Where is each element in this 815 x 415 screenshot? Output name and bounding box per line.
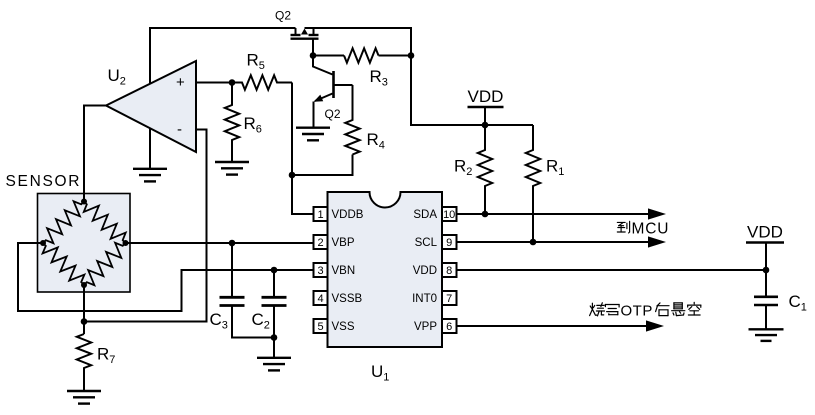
IC U1 body with notch xyxy=(328,192,443,347)
svg-text:10: 10 xyxy=(443,209,455,221)
ground under C2 xyxy=(257,357,291,359)
svg-text:VSSB: VSSB xyxy=(332,293,363,305)
U1 pin 4 box xyxy=(314,291,328,305)
resistor R1 xyxy=(526,125,540,242)
svg-text:VDD: VDD xyxy=(468,87,504,106)
junction R4/pin1 branch xyxy=(289,172,296,179)
resistor R2 xyxy=(478,125,492,214)
wire MOSFET gate drop xyxy=(312,39,314,56)
capacitor C1 xyxy=(754,270,778,329)
svg-text:+: + xyxy=(176,74,185,91)
VDD symbol (top) xyxy=(468,87,504,125)
C2/C3 bottom junction xyxy=(271,334,278,341)
U1 pin 1 box xyxy=(314,207,328,221)
svg-text:INT0: INT0 xyxy=(412,293,437,305)
junction bottom node / feedback xyxy=(81,318,88,325)
svg-text:4: 4 xyxy=(317,293,323,305)
capacitor C2 xyxy=(262,270,287,358)
sensor bridge resistor top-left xyxy=(43,201,84,243)
C3 top junction xyxy=(229,240,236,247)
svg-text:7: 7 xyxy=(446,293,452,305)
OTP floating note label xyxy=(590,302,701,319)
svg-text:VSS: VSS xyxy=(332,321,355,333)
arrow to MCU on SDA xyxy=(648,208,666,219)
U1 pin 6 box xyxy=(442,319,457,333)
wire sensor left node loop to pin3 VBN xyxy=(18,243,314,311)
wire sensor bottom node down to R7 xyxy=(83,285,85,334)
svg-text:SCL: SCL xyxy=(415,237,438,249)
svg-text:2: 2 xyxy=(317,237,323,249)
U1 pin 10 box xyxy=(442,207,457,221)
svg-text:SDA: SDA xyxy=(413,209,437,221)
sensor bridge node right xyxy=(123,240,129,246)
U1 pin 5 box xyxy=(314,319,328,333)
svg-text:9: 9 xyxy=(446,237,452,249)
U1 pin 7 box xyxy=(442,291,457,305)
U1 pin 8 box xyxy=(442,263,457,277)
svg-text:VBP: VBP xyxy=(332,237,355,249)
wire R3 right to VDD branch xyxy=(379,55,412,57)
resistor R4 xyxy=(345,85,359,155)
ground under Q2 emitter xyxy=(296,126,330,128)
ground under C1 xyxy=(749,328,784,330)
transistor Q2 (BJT) xyxy=(313,56,353,128)
U1 pin 2 box xyxy=(314,235,328,249)
resistor R5 xyxy=(232,75,292,89)
sensor bridge node left xyxy=(40,240,46,246)
wire SCL pin9 to MCU xyxy=(457,241,650,243)
svg-text:Q2: Q2 xyxy=(275,9,291,23)
U1 pin 3 box xyxy=(314,263,328,277)
R2 bottom junction xyxy=(482,211,489,218)
VDD branch junction xyxy=(482,122,489,129)
sensor bridge node bottom xyxy=(81,282,87,288)
VDD symbol (right) xyxy=(746,223,784,271)
svg-text:VDDB: VDDB xyxy=(332,209,364,221)
wire SDA pin10 to MCU xyxy=(457,213,650,215)
svg-text:6: 6 xyxy=(446,321,452,333)
svg-text:VDD: VDD xyxy=(413,265,437,277)
svg-text:VPP: VPP xyxy=(414,321,437,333)
wire op-amp output to sensor top node xyxy=(84,106,106,202)
resistor R3 xyxy=(344,48,379,62)
svg-text:8: 8 xyxy=(446,265,452,277)
sensor body box xyxy=(38,194,131,293)
resistor R7 xyxy=(77,334,91,391)
wire op-amp + input to node A xyxy=(196,82,232,84)
wire R4 bottom to node at pin1 branch xyxy=(292,155,353,176)
C2 top junction xyxy=(271,267,278,274)
svg-text:MCU: MCU xyxy=(632,221,670,238)
op-amp ground wire xyxy=(149,128,151,169)
sensor bridge resistor top-right xyxy=(84,202,126,244)
MOSFET Q2 (top) xyxy=(291,28,319,39)
wire R5 right side down to pin1 VDDB xyxy=(292,83,314,215)
resistor R6 xyxy=(225,83,239,162)
capacitor C3 xyxy=(220,243,275,338)
wire top rail right segment to VDD branch xyxy=(305,28,534,125)
wire op-amp - input feedback from sensor bottom node xyxy=(84,130,207,322)
pin8/VDD/C1 junction xyxy=(763,267,770,274)
ground under R7 xyxy=(67,390,101,392)
svg-text:OTP: OTP xyxy=(621,303,653,320)
arrow to MCU on SCL xyxy=(648,236,666,247)
svg-text:Q2: Q2 xyxy=(325,107,341,121)
svg-text:5: 5 xyxy=(317,321,323,333)
arrow on VPP xyxy=(646,320,664,331)
gate node junction xyxy=(310,52,317,59)
svg-text:VBN: VBN xyxy=(332,265,356,277)
node A junction (+input/R5/R6) xyxy=(229,79,236,86)
wire VDD pin8 to C1 xyxy=(457,269,767,271)
svg-text:3: 3 xyxy=(317,265,323,277)
wire VPP pin6 xyxy=(457,325,648,327)
wire sensor right node to pin2 VBP xyxy=(126,242,314,244)
svg-text:1: 1 xyxy=(317,209,323,221)
wire R3 left to gate node xyxy=(313,55,344,57)
ground under op-amp xyxy=(133,168,167,170)
R3 right junction xyxy=(408,52,415,59)
wire op-amp V+ supply to top rail xyxy=(150,28,296,84)
ground under R6 xyxy=(215,161,249,163)
R1 bottom junction xyxy=(530,239,537,246)
svg-text:SENSOR: SENSOR xyxy=(6,173,82,190)
sensor bridge node top xyxy=(81,199,87,205)
U1 pin 9 box xyxy=(442,235,457,249)
sensor bridge resistor bottom-right xyxy=(84,243,126,285)
op-amp U2 body xyxy=(106,61,196,152)
到MCU label xyxy=(617,221,669,238)
svg-text:VDD: VDD xyxy=(747,223,783,242)
svg-text:-: - xyxy=(177,121,182,138)
sensor bridge resistor bottom-left xyxy=(43,243,85,285)
